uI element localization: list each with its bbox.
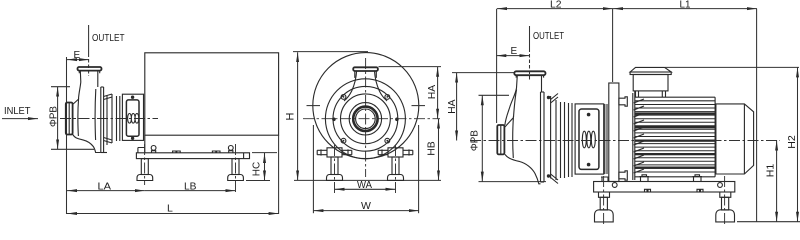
casing face plate (view3) [540,92,542,182]
dimension L (view1) [278,135,280,214]
svg-text:OUTLET: OUTLET [92,32,125,44]
casing face plate (view1) [100,87,102,153]
dimension H1 [776,141,778,222]
outlet neck (view1) [79,70,98,98]
rail bolts (view1) [173,151,181,153]
clamp rings (view3) [555,100,557,180]
centerline (view3) [470,140,780,142]
casing rear face (view1) [94,89,97,140]
dimension PB (view1) [51,86,70,88]
svg-text:HB: HB [427,141,438,156]
outlet flange (view3) [514,71,545,75]
svg-text:E: E [74,50,81,61]
dimension HB (view2) [438,119,440,181]
horizontal centerline (view2) [303,118,440,120]
clamp rings (view1) [106,95,108,145]
svg-text:OUTLET: OUTLET [533,30,564,42]
motor front bolts (view3) [619,97,627,106]
svg-text:H: H [285,112,297,120]
svg-text:HC: HC [252,162,263,177]
dimension L2 [497,8,613,10]
clamp marks top (view1) [104,94,112,100]
base rail (view3) [594,182,735,193]
lantern bolts (view3) [587,113,591,117]
vertical centerline (view2) [365,58,367,177]
shaft slots (view3) [582,131,595,148]
dimension WA [335,188,396,190]
leg left (view2) [317,145,352,193]
outlet neck (view2) [344,71,387,101]
flange tabs (view3) [516,75,543,77]
suction cone (view1) [73,98,79,136]
dimension H [297,52,299,180]
svg-text:ΦPB: ΦPB [49,106,60,127]
pump centerline (view1) [60,118,158,120]
spacer band (view3) [604,104,606,174]
dimension L2 L1 extension lines [496,9,498,123]
VIEW2 [285,52,442,214]
svg-text:WA: WA [357,179,372,191]
svg-text:HA: HA [447,99,458,114]
pump support bolt (view3) [601,177,609,182]
volute casing (view3) [505,90,541,184]
suction cone (view3) [505,116,514,158]
motor foot bolts (view3) [640,175,650,182]
dimension E (view1) [66,57,68,214]
outlet leader (view3) [529,26,531,52]
foot left (view1) [144,144,146,185]
volute outer circle [313,53,419,159]
svg-text:H2: H2 [787,135,798,149]
svg-text:LB: LB [184,181,197,193]
impeller circles [325,79,405,159]
svg-text:LA: LA [98,181,112,193]
flange tabs (view1) [79,71,99,73]
stud right (view1) [228,151,233,153]
casing bolts [341,95,346,100]
clamp bolts (view3) [547,96,550,99]
dimension HA (view2) [379,66,442,68]
base rail (view1) [136,153,249,159]
bottom extension line [294,179,441,181]
foot right (view3) [724,176,726,226]
outlet leader line [88,25,90,57]
svg-text:INLET: INLET [4,105,31,117]
dimension HA (view3) [452,72,514,74]
lantern bracket (view1) [122,94,143,140]
VIEW3 [447,0,800,226]
svg-text:HA: HA [427,84,438,99]
clamp marks (view3) [551,94,558,184]
outlet flange (view1) [78,67,102,71]
lantern bracket (view3) [575,104,604,174]
VIEW1 [2,25,279,215]
H top extension [293,51,368,53]
svg-text:E: E [511,46,518,57]
shaft slots (view1) [128,114,139,124]
inlet flange (view1) [66,103,73,135]
outlet flange (view2) [353,67,378,71]
inlet flange (view3) [497,125,504,154]
motor end cap (view3) [716,104,754,174]
svg-text:L2: L2 [550,0,562,11]
foot right (view1) [235,144,237,194]
dimension W [312,125,314,213]
svg-text:H1: H1 [766,163,777,177]
leg right (view2) [378,145,413,193]
dimension E (view3) [496,55,529,57]
ground extension (view3) [737,221,800,223]
svg-text:W: W [361,200,371,212]
motor box (view1) [145,53,279,135]
dimension PB (view3) [479,94,510,96]
volute casing bottom (view1) [73,134,101,152]
dimension L1 [613,8,757,10]
dimension HC (view1) [252,152,277,154]
support bracket under box (view1) [138,135,145,153]
svg-text:L: L [167,203,173,215]
clamp marks bottom (view1) [104,138,112,144]
foot left (view3) [603,176,605,226]
dimension H2 [665,66,799,68]
outlet neck (view3) [505,75,542,125]
terminal box (view3) [630,67,671,72]
motor fin block (view3) [635,96,715,98]
bracket bolts (view1) [131,96,134,99]
circle center ticks (view2) [307,105,321,107]
stud left (view1) [151,151,156,153]
dimension LA LB (view1) [67,190,145,192]
svg-text:L1: L1 [680,0,691,11]
motor stand plate (view3) [609,83,619,182]
